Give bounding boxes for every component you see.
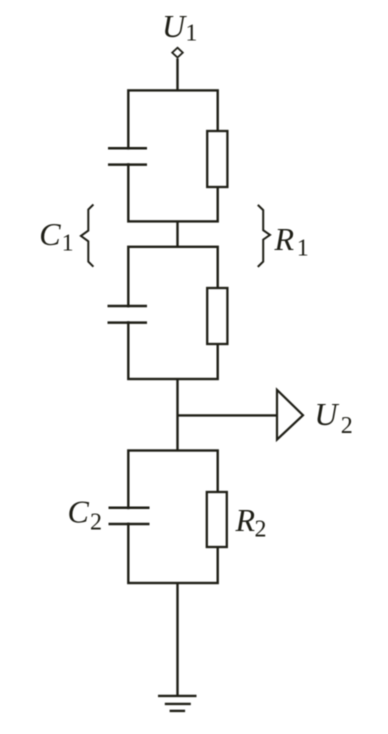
svg-text:2: 2 bbox=[341, 413, 353, 439]
svg-text:1: 1 bbox=[185, 21, 197, 47]
svg-text:U: U bbox=[314, 396, 339, 432]
svg-text:U: U bbox=[162, 8, 187, 44]
svg-text:R: R bbox=[274, 221, 295, 257]
svg-text:C: C bbox=[68, 494, 90, 530]
svg-text:1: 1 bbox=[62, 230, 74, 256]
svg-text:2: 2 bbox=[255, 517, 267, 543]
svg-text:1: 1 bbox=[297, 236, 309, 262]
svg-text:R: R bbox=[235, 502, 256, 538]
svg-text:2: 2 bbox=[90, 510, 102, 536]
svg-text:C: C bbox=[39, 216, 61, 252]
